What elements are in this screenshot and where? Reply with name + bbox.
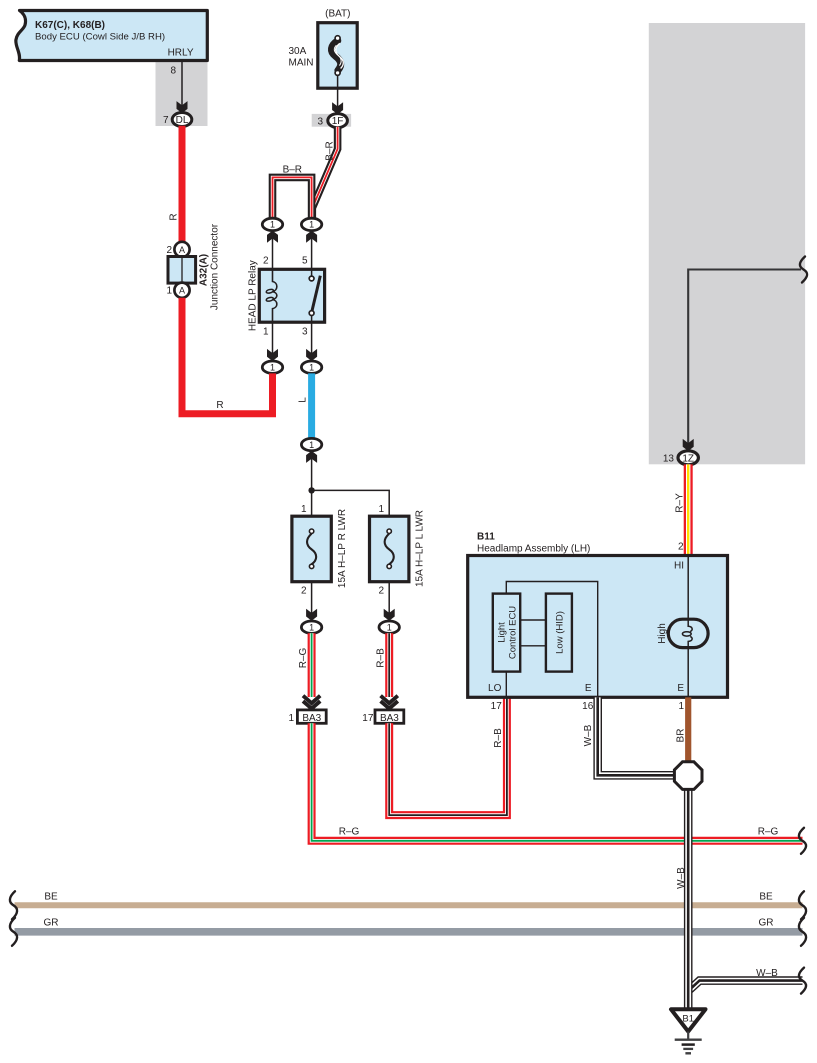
wire break at ECU block edge bbox=[800, 257, 807, 283]
svg-text:B–R: B–R bbox=[283, 165, 302, 176]
wire R-G to BA3 bbox=[308, 633, 316, 697]
connector K67/K68 Body ECU box bbox=[16, 11, 207, 61]
svg-text:R–Y: R–Y bbox=[674, 493, 685, 513]
svg-text:High: High bbox=[657, 623, 668, 644]
svg-text:7: 7 bbox=[163, 115, 169, 126]
svg-text:2: 2 bbox=[378, 586, 384, 597]
svg-text:1: 1 bbox=[301, 504, 307, 515]
svg-text:Headlamp Assembly (LH): Headlamp Assembly (LH) bbox=[477, 544, 590, 555]
svg-text:LO: LO bbox=[488, 683, 502, 694]
svg-text:17: 17 bbox=[491, 701, 503, 712]
junction node bbox=[308, 487, 314, 493]
wire fuse to 1F bbox=[337, 76, 339, 113]
svg-text:B–R: B–R bbox=[324, 141, 335, 160]
svg-text:HRLY: HRLY bbox=[168, 48, 194, 59]
ECU block (shaded, right column) bbox=[649, 23, 805, 464]
svg-text:GR: GR bbox=[44, 918, 59, 929]
connector holder shading (7 DL) bbox=[156, 62, 208, 126]
svg-text:1: 1 bbox=[309, 362, 314, 372]
splice BA3 (1) bbox=[297, 710, 326, 723]
wire R from DL to A32 bbox=[179, 126, 186, 242]
arrow into connector (fuse R) bbox=[306, 609, 317, 621]
svg-text:E: E bbox=[677, 683, 684, 694]
arrow up into connector bbox=[306, 451, 317, 463]
svg-text:16: 16 bbox=[582, 701, 594, 712]
svg-text:BE: BE bbox=[44, 892, 58, 903]
wire relay pin 1 bbox=[272, 322, 274, 359]
svg-text:1: 1 bbox=[309, 220, 314, 230]
svg-text:A: A bbox=[179, 245, 185, 255]
wire W-B from pin 16 to octagon splice bbox=[598, 697, 675, 775]
svg-text:B11: B11 bbox=[477, 532, 495, 543]
svg-text:1F: 1F bbox=[332, 116, 344, 127]
svg-text:2: 2 bbox=[263, 256, 269, 267]
svg-text:R: R bbox=[169, 213, 180, 220]
connector 1F pin 3 bbox=[328, 114, 348, 128]
connector 1 (relay pin 2 side) bbox=[262, 218, 282, 230]
svg-text:W–B: W–B bbox=[756, 968, 778, 979]
wire R-B to BA3 bbox=[385, 633, 393, 697]
wire fuse L bottom bbox=[388, 582, 390, 619]
connector 1 below relay pin 3 bbox=[301, 361, 321, 373]
wire L from relay pin 3 bbox=[308, 373, 315, 438]
arrow into connector (fuse L) bbox=[384, 609, 395, 621]
svg-text:R: R bbox=[216, 400, 223, 411]
arrow up into connector (pin5) bbox=[306, 231, 317, 243]
arrow into 1F bbox=[332, 102, 343, 114]
svg-text:R–G: R–G bbox=[758, 827, 779, 838]
svg-text:15A H–LP L LWR: 15A H–LP L LWR bbox=[414, 510, 425, 587]
wire HRLY pin 8 bbox=[181, 61, 183, 112]
wire W-B octagon to ground bbox=[684, 787, 693, 1010]
relay switch bbox=[311, 269, 313, 276]
svg-text:R–B: R–B bbox=[493, 728, 504, 748]
svg-text:1: 1 bbox=[263, 327, 269, 338]
wire break BE right bbox=[799, 891, 806, 919]
connector holder shading (3 1F) bbox=[312, 114, 351, 127]
svg-text:BA3: BA3 bbox=[302, 713, 321, 724]
wire R-Y from 1Z to headlamp HI bbox=[684, 464, 693, 555]
connector A pin 1 bbox=[174, 283, 189, 298]
svg-text:1: 1 bbox=[166, 286, 172, 297]
bulb filament bbox=[688, 620, 692, 632]
svg-text:8: 8 bbox=[170, 66, 176, 77]
arrow into 1Z bbox=[683, 439, 694, 451]
svg-text:Body ECU (Cowl Side J/B RH): Body ECU (Cowl Side J/B RH) bbox=[35, 32, 165, 43]
svg-text:R–G: R–G bbox=[339, 827, 360, 838]
splice arrows BA3 right bbox=[381, 696, 398, 704]
wire ECU to pin 17 LO bbox=[505, 672, 507, 698]
wire HI to bulb bbox=[687, 556, 689, 621]
wire B-R loop between relay pins bbox=[273, 177, 312, 218]
connector 1 below fuse L bbox=[379, 621, 399, 633]
connector 1 (relay pin 5 side) bbox=[301, 218, 321, 230]
relay HEAD LP Relay bbox=[259, 269, 324, 322]
svg-text:DL: DL bbox=[176, 115, 189, 126]
wire break W-B right bbox=[799, 968, 806, 994]
svg-text:13: 13 bbox=[663, 454, 675, 465]
svg-text:15A H–LP R LWR: 15A H–LP R LWR bbox=[337, 509, 348, 588]
ground B1 bbox=[671, 1009, 706, 1031]
splice octagon bbox=[674, 762, 702, 790]
svg-text:(BAT): (BAT) bbox=[325, 9, 350, 20]
svg-text:17: 17 bbox=[362, 713, 374, 724]
svg-text:K67(C), K68(B): K67(C), K68(B) bbox=[35, 20, 105, 31]
wire GR bbox=[15, 928, 803, 936]
svg-text:2: 2 bbox=[166, 245, 172, 256]
svg-text:2: 2 bbox=[301, 586, 307, 597]
svg-text:1: 1 bbox=[288, 713, 294, 724]
svg-text:A: A bbox=[179, 286, 185, 296]
connector 1 (L wire bottom) bbox=[301, 438, 321, 450]
svg-text:2: 2 bbox=[678, 542, 684, 553]
splice BA3 (17) bbox=[375, 710, 404, 723]
svg-text:BA3: BA3 bbox=[380, 713, 399, 724]
wire B-R from 1F (diagonal) bbox=[312, 127, 337, 219]
svg-text:1: 1 bbox=[309, 622, 314, 632]
wire fuse R bottom bbox=[311, 582, 313, 619]
svg-text:Junction Connector: Junction Connector bbox=[209, 223, 220, 310]
connector DL pin 7 bbox=[172, 113, 192, 127]
wire inside shaded ECU block bbox=[688, 270, 801, 450]
svg-text:1Z: 1Z bbox=[682, 453, 694, 464]
svg-text:HI: HI bbox=[674, 561, 684, 572]
wire R-B from BA3 to headlamp pin 17 bbox=[389, 697, 507, 815]
connector 1 below fuse R bbox=[301, 621, 321, 633]
svg-text:1: 1 bbox=[387, 622, 392, 632]
light control ECU box bbox=[493, 594, 520, 672]
wire break R-G right bbox=[799, 828, 806, 854]
svg-text:1: 1 bbox=[678, 701, 684, 712]
svg-text:Low (HID): Low (HID) bbox=[555, 611, 566, 654]
wire R from A32 to relay connector bbox=[182, 298, 273, 414]
wire W-B branch to right bbox=[688, 981, 802, 991]
svg-text:1: 1 bbox=[270, 362, 275, 372]
fuse 15A H-LP L LWR bbox=[370, 516, 409, 582]
junction connector A32(A) bbox=[168, 257, 196, 284]
high beam bulb bbox=[668, 619, 708, 647]
svg-text:L: L bbox=[298, 397, 309, 403]
connector A pin 2 bbox=[174, 242, 189, 257]
svg-text:R–B: R–B bbox=[376, 648, 387, 668]
svg-text:BE: BE bbox=[759, 892, 773, 903]
svg-text:1: 1 bbox=[309, 440, 314, 450]
wire BR from pin 1 bbox=[685, 697, 691, 762]
svg-text:A32(A): A32(A) bbox=[198, 254, 209, 286]
svg-text:Light: Light bbox=[497, 622, 508, 643]
connector 1 below relay pin 1 bbox=[262, 361, 282, 373]
wire relay pin 3 bbox=[311, 322, 313, 359]
low (HID) box bbox=[546, 594, 572, 672]
svg-text:1: 1 bbox=[270, 220, 275, 230]
svg-text:3: 3 bbox=[302, 327, 308, 338]
svg-text:R–G: R–G bbox=[298, 647, 309, 668]
relay coil bbox=[273, 269, 277, 322]
wire to junction dot bbox=[311, 453, 313, 491]
wire to relay pin 2 bbox=[272, 233, 274, 270]
connector 1Z pin 13 bbox=[678, 451, 698, 465]
svg-text:3: 3 bbox=[317, 116, 323, 127]
svg-text:B1: B1 bbox=[682, 1014, 694, 1025]
wire break GR right bbox=[799, 918, 806, 946]
wire R-G from BA3 to right (to RH lamp) bbox=[312, 723, 803, 841]
wire junction to left fuse bbox=[311, 490, 313, 516]
wire BE bbox=[15, 902, 803, 908]
arrow into connector (pin3) bbox=[306, 349, 317, 361]
splice arrows BA3 left bbox=[303, 696, 320, 704]
wire ECU to pin 16 E bbox=[506, 582, 597, 698]
svg-text:5: 5 bbox=[302, 256, 308, 267]
svg-text:GR: GR bbox=[759, 918, 774, 929]
svg-text:Control ECU: Control ECU bbox=[508, 606, 519, 659]
svg-text:E: E bbox=[585, 683, 592, 694]
svg-text:W–B: W–B bbox=[676, 867, 687, 889]
svg-text:HEAD LP Relay: HEAD LP Relay bbox=[248, 260, 259, 331]
fuse element 30A bbox=[331, 41, 340, 71]
arrow up into connector (pin2) bbox=[267, 231, 278, 243]
svg-text:BR: BR bbox=[675, 729, 686, 743]
wires between ECU and low boxes bbox=[520, 619, 546, 621]
wire junction to right fuse bbox=[312, 490, 390, 516]
wire bulb to pin 1 E bbox=[687, 647, 689, 697]
wire break BE left bbox=[10, 891, 17, 919]
svg-text:MAIN: MAIN bbox=[289, 58, 314, 69]
svg-text:30A: 30A bbox=[289, 46, 307, 57]
arrow into connector (pin1) bbox=[267, 349, 278, 361]
wire to relay pin 5 bbox=[311, 233, 313, 270]
svg-text:1: 1 bbox=[378, 504, 384, 515]
svg-text:W–B: W–B bbox=[583, 724, 594, 746]
arrow into DL bbox=[177, 101, 188, 113]
fuse 15A H-LP R LWR bbox=[292, 516, 331, 582]
wire break GR left bbox=[10, 918, 17, 946]
